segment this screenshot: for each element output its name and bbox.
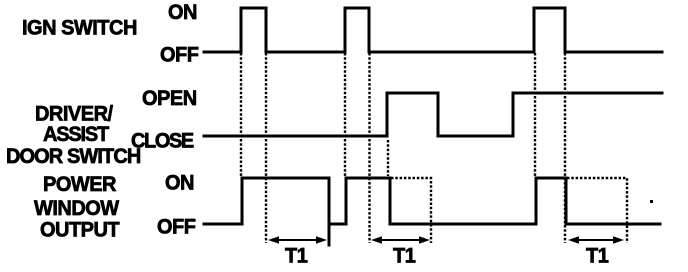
svg-text:OFF: OFF (160, 43, 198, 67)
svg-text:ON: ON (168, 0, 197, 24)
svg-text:ON: ON (165, 171, 194, 195)
svg-text:T1: T1 (586, 244, 608, 268)
svg-text:IGN SWITCH: IGN SWITCH (22, 16, 137, 40)
svg-text:WINDOW: WINDOW (34, 196, 120, 220)
svg-text:CLOSE: CLOSE (131, 129, 194, 153)
svg-text:OPEN: OPEN (142, 86, 197, 110)
svg-text:OUTPUT: OUTPUT (40, 218, 120, 242)
svg-text:POWER: POWER (43, 172, 116, 196)
svg-text:DOOR SWITCH: DOOR SWITCH (6, 144, 140, 168)
svg-text:ASSIST: ASSIST (43, 122, 109, 146)
svg-text:OFF: OFF (157, 215, 195, 239)
svg-text:T1: T1 (285, 244, 307, 268)
svg-text:T1: T1 (393, 244, 415, 268)
